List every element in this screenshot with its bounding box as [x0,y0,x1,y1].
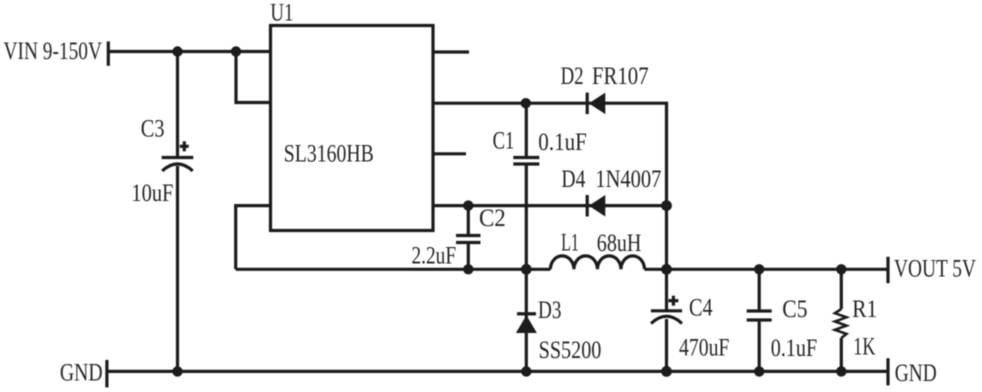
svg-text:VOUT 5V: VOUT 5V [894,256,976,283]
svg-text:U1: U1 [270,0,293,27]
svg-text:C2: C2 [479,205,506,232]
svg-text:D2: D2 [561,63,584,90]
svg-text:SL3160HB: SL3160HB [284,140,374,167]
svg-text:SS5200: SS5200 [539,337,602,364]
svg-text:2.2uF: 2.2uF [412,242,457,269]
svg-text:C1: C1 [493,128,515,155]
svg-text:0.1uF: 0.1uF [538,129,587,156]
svg-text:L1: L1 [561,230,579,257]
svg-text:68uH: 68uH [597,230,642,257]
svg-text:FR107: FR107 [592,63,649,90]
svg-text:D3: D3 [538,297,561,324]
svg-text:1N4007: 1N4007 [595,166,661,193]
svg-text:10uF: 10uF [131,180,173,207]
svg-text:R1: R1 [852,296,877,323]
svg-text:GND: GND [60,360,103,387]
svg-text:C3: C3 [141,116,165,143]
svg-text:GND: GND [895,360,937,387]
svg-text:470uF: 470uF [679,335,729,362]
svg-text:D4: D4 [561,166,585,193]
svg-text:C4: C4 [689,295,713,322]
svg-text:1K: 1K [853,334,875,361]
svg-text:C5: C5 [782,296,807,323]
svg-text:0.1uF: 0.1uF [771,335,818,362]
svg-text:VIN 9-150V: VIN 9-150V [4,38,103,65]
